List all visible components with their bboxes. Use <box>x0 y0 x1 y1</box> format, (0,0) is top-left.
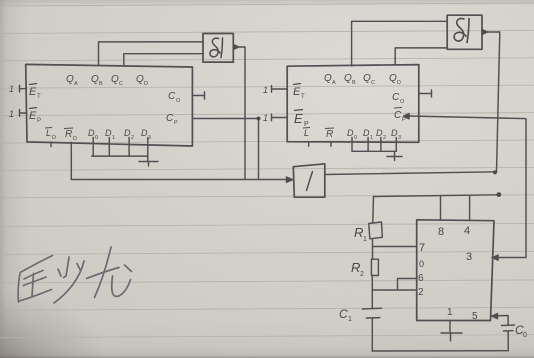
label QC2 <box>363 73 375 86</box>
svg-text:L: L <box>304 128 309 138</box>
label D3 U1 <box>141 128 151 141</box>
wire clock to CP2 <box>410 116 527 258</box>
label ET2 <box>293 84 305 101</box>
wire pin6 step <box>398 279 417 291</box>
svg-text:T: T <box>37 94 41 100</box>
ground U2 D bus <box>387 151 402 160</box>
svg-text:1: 1 <box>112 135 115 141</box>
ground pin1 <box>441 333 462 341</box>
svg-text:2: 2 <box>383 135 386 141</box>
svg-text:D: D <box>141 128 148 138</box>
svg-text:6: 6 <box>418 273 424 284</box>
svg-text:2: 2 <box>360 271 364 278</box>
svg-text:3: 3 <box>148 135 151 141</box>
svg-text:E: E <box>29 110 37 122</box>
svg-text:7: 7 <box>419 242 425 254</box>
wire bottom ground rail <box>372 350 508 352</box>
wire inverter output to AND2 line <box>325 172 497 175</box>
signature stroke kuang <box>18 247 131 303</box>
label QD1 <box>136 74 148 87</box>
wire AND1 output down <box>239 47 245 179</box>
pin ET2 stub <box>272 86 288 93</box>
svg-text:A: A <box>332 80 336 86</box>
svg-text:0: 0 <box>95 135 98 141</box>
svg-text:0: 0 <box>419 259 424 269</box>
svg-text:D: D <box>397 80 401 86</box>
and-gate U4 output arrow <box>482 30 488 35</box>
wire R1 to R2 <box>372 239 374 259</box>
wire C0 to ground rail <box>507 331 509 351</box>
svg-text:3: 3 <box>466 251 472 263</box>
label EP1 <box>29 108 41 125</box>
label ET1 <box>29 84 41 101</box>
svg-text:R: R <box>326 129 333 140</box>
inverter U5 input arrowhead <box>287 177 293 182</box>
capacitor C1 <box>363 308 382 318</box>
svg-text:O: O <box>400 99 405 105</box>
svg-text:Q: Q <box>136 74 144 85</box>
label D0 U2 <box>347 128 357 141</box>
svg-text:5: 5 <box>472 311 478 322</box>
label C0 <box>515 323 527 339</box>
svg-text:B: B <box>99 81 103 87</box>
svg-text:D: D <box>73 136 77 142</box>
svg-text:C: C <box>371 80 375 86</box>
svg-text:Q: Q <box>344 73 352 84</box>
wire R2 to C1 <box>371 276 373 309</box>
arrowhead pin5 <box>492 314 498 319</box>
label D1 U1 <box>105 128 115 141</box>
label CO2 <box>392 92 405 105</box>
label D2 U1 <box>124 128 134 141</box>
pin D stubs U1 <box>93 138 148 157</box>
svg-text:D: D <box>52 135 56 141</box>
and-gate U4 glyph <box>454 19 469 43</box>
svg-text:8: 8 <box>438 226 444 238</box>
svg-text:B: B <box>352 80 356 86</box>
label C1 <box>339 307 352 323</box>
pin D stubs U2 <box>352 138 396 152</box>
svg-text:C: C <box>394 110 402 121</box>
inverter U5 box <box>293 164 325 197</box>
signature stroke shao <box>64 257 70 278</box>
svg-text:A: A <box>74 81 78 87</box>
svg-text:C: C <box>119 81 123 87</box>
wire rail to R1 <box>372 197 375 223</box>
svg-text:C: C <box>168 91 176 102</box>
svg-text:P: P <box>304 121 309 128</box>
wire Q1B to AND1 input 1 <box>99 42 204 65</box>
signature stroke long <box>87 268 120 279</box>
wire pin1 to ground <box>449 321 451 334</box>
wire Q2B to AND2 input 1 <box>352 21 448 66</box>
counter U1 box <box>26 64 193 146</box>
svg-text:C: C <box>166 113 174 124</box>
svg-text:Q: Q <box>389 73 397 84</box>
svg-text:E: E <box>293 86 301 98</box>
wire pin3 output <box>492 257 526 259</box>
pin EP1 stub <box>20 110 26 117</box>
svg-text:0: 0 <box>523 332 527 339</box>
svg-text:D: D <box>88 128 95 138</box>
wire RD1 to inverter input <box>71 142 289 179</box>
svg-text:D: D <box>363 128 370 138</box>
svg-text:D: D <box>376 128 383 138</box>
pin CO2 stub <box>419 90 432 97</box>
arrowhead pin3 <box>493 255 499 260</box>
svg-text:1: 1 <box>370 135 373 141</box>
label LD1 <box>45 128 56 142</box>
and-gate U4 box <box>447 15 482 49</box>
svg-text:P: P <box>37 118 41 124</box>
counter U2 box <box>287 65 419 143</box>
svg-text:Q: Q <box>363 73 371 84</box>
svg-text:1: 1 <box>263 113 268 123</box>
label D2 U2 <box>376 128 386 141</box>
label QD2 <box>389 73 401 86</box>
svg-text:C: C <box>339 307 348 321</box>
svg-text:Q: Q <box>324 73 332 84</box>
label QC1 <box>111 74 123 87</box>
label RD1 <box>64 128 77 142</box>
label D1 U2 <box>363 128 373 141</box>
pin EP2 stub <box>272 114 288 121</box>
svg-text:2: 2 <box>418 287 424 298</box>
svg-text:1: 1 <box>9 84 14 94</box>
label CP1 <box>166 113 178 126</box>
wire D bus U2 <box>352 150 396 152</box>
svg-text:4: 4 <box>464 225 470 237</box>
label QB1 <box>91 74 103 87</box>
wire C1 to ground rail <box>371 318 373 351</box>
svg-text:3: 3 <box>398 135 401 141</box>
label R2 <box>351 260 364 278</box>
resistor R2 <box>371 259 378 275</box>
pin RD2 stub <box>330 142 332 147</box>
svg-text:D: D <box>347 128 354 138</box>
svg-text:O: O <box>176 98 181 104</box>
svg-text:D: D <box>144 81 148 87</box>
node CP1 junction <box>257 117 261 121</box>
svg-text:0: 0 <box>354 135 357 141</box>
and-gate U3 output arrow <box>233 45 239 50</box>
timer U6 555 box <box>417 220 494 321</box>
label QA2 <box>324 73 336 86</box>
wire pin5 to C0 <box>491 316 508 326</box>
and-gate U3 box <box>203 34 233 63</box>
svg-text:R: R <box>351 260 360 275</box>
inverter U5 glyph <box>307 172 313 191</box>
svg-text:E: E <box>29 86 37 98</box>
label CP2 <box>394 108 406 124</box>
svg-text:Q: Q <box>111 74 119 85</box>
and-gate U3 glyph <box>210 38 223 58</box>
svg-text:P: P <box>174 120 178 126</box>
wire AND2 output down <box>488 32 500 172</box>
capacitor C0 <box>502 325 515 331</box>
pin ET1 stub <box>20 85 26 92</box>
svg-text:1: 1 <box>363 236 367 243</box>
node inverter output junction <box>493 170 497 174</box>
svg-text:1: 1 <box>447 307 453 318</box>
svg-text:L: L <box>46 128 51 138</box>
pin LD2 stub <box>308 142 310 147</box>
wire D bus U1 <box>92 155 148 157</box>
svg-text:C: C <box>392 92 400 103</box>
svg-text:E: E <box>294 111 303 126</box>
label D0 U1 <box>88 128 98 141</box>
label EP2 <box>294 110 309 129</box>
svg-text:Q: Q <box>91 74 99 85</box>
svg-text:1: 1 <box>263 85 268 95</box>
label QB2 <box>344 73 356 86</box>
ground U1 D bus <box>139 156 158 166</box>
wire VCC top rail <box>374 195 499 197</box>
label D3 U2 <box>391 128 401 141</box>
wire CP1 to node <box>192 119 258 180</box>
svg-text:2: 2 <box>131 135 134 141</box>
node VCC terminal <box>496 192 501 197</box>
svg-text:D: D <box>124 128 131 138</box>
svg-text:Q: Q <box>66 74 74 85</box>
svg-text:D: D <box>105 128 112 138</box>
svg-text:1: 1 <box>9 109 14 119</box>
arrowhead CP2 <box>404 114 410 119</box>
resistor R1 <box>369 222 383 239</box>
label CO1 <box>168 91 181 104</box>
wire Q2C to AND2 input 2 <box>395 48 447 65</box>
label QA1 <box>66 74 78 87</box>
wire Q1C to AND1 input 2 <box>124 54 203 65</box>
pin CO1 stub <box>192 92 204 99</box>
svg-text:T: T <box>301 94 305 100</box>
wire pin2 <box>372 289 415 291</box>
label RD2 <box>325 128 334 140</box>
svg-text:R: R <box>354 225 363 240</box>
svg-text:1: 1 <box>348 316 352 323</box>
wire pin4 <box>469 195 471 220</box>
wire pin8 <box>440 196 442 220</box>
label R1 <box>354 225 367 243</box>
wire pin7 <box>373 246 417 248</box>
svg-text:P: P <box>402 117 406 123</box>
label LD2 <box>303 128 310 139</box>
svg-text:R: R <box>65 129 72 140</box>
pin LD1 stub <box>50 142 52 147</box>
svg-text:D: D <box>391 128 398 138</box>
